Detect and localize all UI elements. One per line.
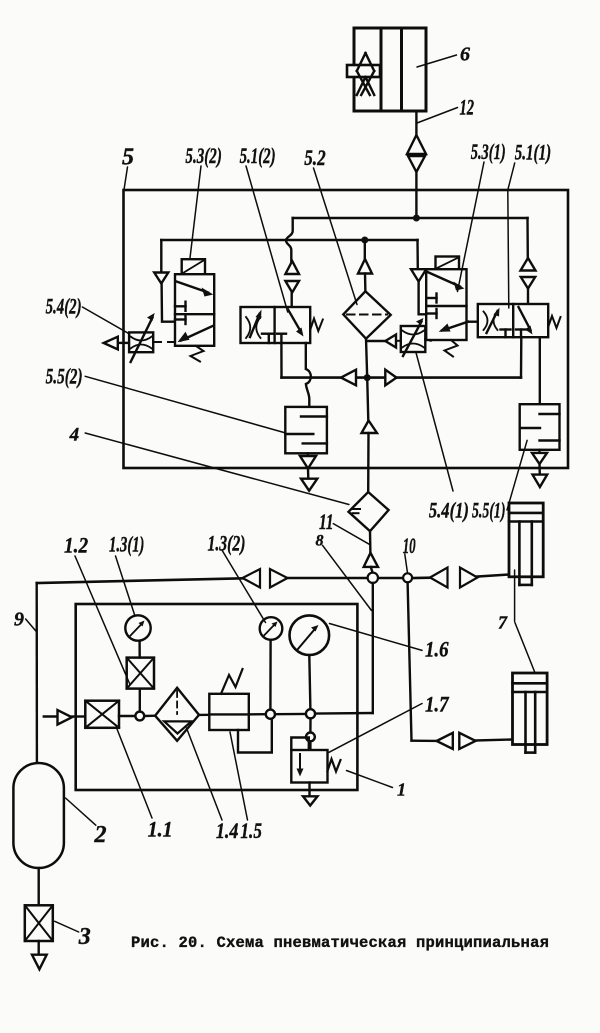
svg-text:4: 4 — [69, 425, 80, 446]
svg-text:1: 1 — [397, 780, 406, 800]
svg-text:5: 5 — [122, 145, 134, 171]
svg-text:Рис. 20. Схема пневматическая: Рис. 20. Схема пневматическая принципиал… — [131, 934, 549, 952]
svg-text:1.4: 1.4 — [216, 819, 239, 843]
svg-text:1.2: 1.2 — [64, 534, 88, 557]
svg-text:1.3(1): 1.3(1) — [109, 533, 144, 558]
svg-text:7: 7 — [498, 613, 508, 633]
svg-text:2: 2 — [94, 822, 107, 848]
svg-text:5.5(1): 5.5(1) — [472, 498, 505, 523]
svg-text:5.1(1): 5.1(1) — [515, 141, 551, 165]
svg-text:12: 12 — [460, 96, 475, 121]
svg-text:3: 3 — [78, 924, 91, 950]
svg-text:5.1(2): 5.1(2) — [240, 144, 276, 169]
svg-text:10: 10 — [403, 534, 416, 558]
svg-text:5.3(1): 5.3(1) — [471, 140, 506, 165]
svg-text:9: 9 — [14, 609, 24, 631]
svg-text:5.5(2): 5.5(2) — [46, 365, 83, 389]
svg-text:8: 8 — [316, 533, 324, 550]
svg-text:6: 6 — [460, 44, 470, 66]
svg-text:5.4(2): 5.4(2) — [46, 295, 82, 320]
svg-text:1.5: 1.5 — [240, 819, 262, 843]
svg-text:1.3(2): 1.3(2) — [208, 532, 246, 556]
svg-text:5.3(2): 5.3(2) — [185, 144, 221, 168]
svg-text:1.7: 1.7 — [425, 693, 449, 717]
svg-text:5.4(1): 5.4(1) — [429, 499, 469, 523]
svg-text:11: 11 — [319, 510, 333, 534]
svg-text:1.6: 1.6 — [425, 638, 449, 662]
svg-text:5.2: 5.2 — [304, 146, 326, 171]
svg-text:1.1: 1.1 — [148, 817, 173, 842]
